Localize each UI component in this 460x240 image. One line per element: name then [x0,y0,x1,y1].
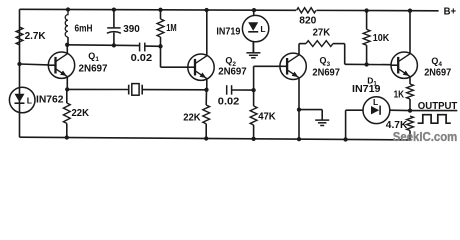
wire 1K to output node [409,99,411,111]
svg-text:390: 390 [123,24,140,35]
resistor 22K (Q2 emitter) [203,105,210,124]
svg-text:820: 820 [299,15,316,26]
transistor Q3 2N697 [280,53,306,79]
wire 22K to ground rail [66,89,68,103]
capacitor 0.02 coupling Q1-Q2 [139,43,141,52]
svg-text:OUTPUT: OUTPUT [418,101,458,112]
svg-text:2N697: 2N697 [312,67,340,78]
wire Q4 collector [409,11,411,54]
resistor 47K [250,106,257,125]
zener diode D1 1N719 in circle [363,97,390,124]
transistor Q1 2N697 [48,52,74,78]
svg-text:L: L [260,24,265,34]
wire top supply rail right section to B+ [317,9,439,11]
wire to ground symbol [299,109,322,111]
svg-text:10K: 10K [373,33,390,44]
svg-text:L: L [27,96,32,106]
resistor 1M [157,19,164,37]
svg-text:IN762: IN762 [36,94,64,105]
wire top supply rail left section [20,8,297,11]
resistor R 2.7K [16,27,23,45]
wire 1N719 bottom lead [252,42,254,53]
wire Q3 emitter down [298,78,300,139]
transistor Q2 2N697 [188,54,214,80]
transistor Q4 2N697 [391,52,417,78]
svg-text:27K: 27K [313,27,331,38]
wire 22K2 leads [205,90,207,105]
wire 27K to Q4 base corner [333,43,345,45]
node 390 cap top on rail [112,7,116,11]
wire Q2 collector [206,10,208,56]
svg-text:SeekIC.com: SeekIC.com [393,130,458,144]
wire output terminal [410,110,457,112]
wire Q2 emitter [206,79,208,90]
capacitor 390 [113,10,115,28]
node Q1 collector junction [65,43,69,47]
wire 1M leads [160,10,162,19]
resistor 27K [306,41,333,47]
node Q3 emitter ground tap [297,107,301,111]
svg-text:1M: 1M [166,23,177,34]
node Q4 collector top on rail [408,9,412,13]
node 390 cap bottom junction [112,43,116,47]
node base of Q1 junction [17,62,21,66]
svg-text:0.02: 0.02 [218,96,240,107]
wire Q1 collector [66,45,68,54]
svg-text:22K: 22K [72,108,90,119]
resistor 22K (Q1 emitter) [63,103,70,123]
zener diode 1N719 in circle [242,15,268,41]
resistor 10K [363,29,370,45]
resistor 820 (series in supply rail) [297,8,317,13]
square wave output waveform symbol [418,115,451,124]
svg-text:22K: 22K [183,112,201,123]
resistor 4.7K [407,116,414,131]
wire Q1 base [20,63,49,66]
svg-text:0.02: 0.02 [131,53,153,64]
wire 47K leads [253,90,255,106]
wire Q1 collector to cap row [67,44,139,47]
crystal Y1 [67,88,129,90]
node 47K bottom on rail [251,137,255,141]
wire 10K leads [366,11,368,30]
wire to Q3 base [253,66,255,90]
svg-text:Q3: Q3 [320,56,331,68]
node Q2 emitter junction [204,88,208,92]
svg-text:IN719: IN719 [352,84,381,95]
node Q2 base junction [158,44,162,48]
node Q1 emitter junction [65,87,69,91]
wire Q4 emitter [409,77,411,84]
svg-text:2N697: 2N697 [79,63,108,74]
wire left vertical bus [19,9,21,137]
svg-text:L: L [373,97,378,107]
svg-text:2N697: 2N697 [424,67,451,78]
node Q3 emitter bottom on rail [297,137,301,141]
svg-text:1K: 1K [394,90,405,101]
svg-text:2N697: 2N697 [218,67,247,78]
capacitor 0.02 coupling Q2-Q3 [226,85,228,95]
ground symbol mid [321,110,323,121]
node 47K junction [251,88,255,92]
svg-text:IN719: IN719 [216,26,240,37]
node D1 bottom on rail [343,137,347,141]
wire Q3 collector up [298,44,300,55]
wire bottom ground rail [20,137,411,140]
node 22K2 bottom on rail [204,136,208,140]
zener diode 1N762 in circle [9,87,35,113]
wire to Q2 base [160,46,162,67]
node 10K top on rail [364,8,368,12]
wire D1 to output node [390,109,410,111]
node 1M top on rail [158,8,162,12]
wire Q1 emitter [66,77,68,90]
svg-text:Q4: Q4 [431,56,442,68]
wire D1 left leg [345,110,347,139]
svg-text:B+: B+ [444,6,457,18]
resistor 1K [407,84,414,99]
svg-text:47K: 47K [258,111,276,122]
node Q4 base junction [364,62,368,66]
wire 1N719 top lead [253,10,255,16]
svg-text:6mH: 6mH [75,24,93,35]
node inductor top on rail [66,7,70,11]
node output junction [408,108,412,112]
node 1N719 top on rail [252,8,256,12]
wire 4.7K bottom lead [409,131,411,140]
svg-text:2.7K: 2.7K [25,31,47,42]
inductor 6mH [65,10,68,38]
node 22K bottom on rail [65,135,69,139]
node Q2 collector top on rail [204,8,208,12]
svg-text:Q1: Q1 [88,51,99,63]
ground symbol below 1N719 [252,42,254,53]
